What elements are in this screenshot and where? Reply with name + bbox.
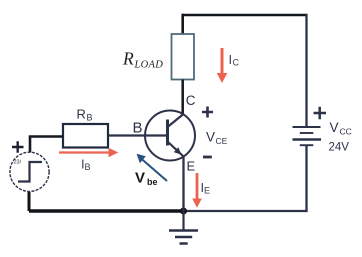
transistor Q1 collector diagonal (168, 114, 184, 127)
svg-text:24V: 24V (329, 142, 350, 154)
transistor Q1 base bar (166, 120, 169, 146)
wire base (R_B to transistor) (108, 134, 167, 136)
label V_be (135, 170, 158, 188)
current arrow I_B (59, 148, 118, 158)
svg-text:B: B (87, 113, 93, 123)
source V1 dashed circle (10, 152, 49, 191)
svg-text:C: C (186, 93, 196, 108)
label C (186, 93, 196, 108)
svg-text:V: V (330, 120, 339, 135)
label R_B (77, 107, 93, 123)
source V1 tiny label (14, 160, 22, 166)
svg-text:R: R (122, 49, 134, 69)
svg-text:V: V (135, 170, 145, 187)
current arrow I_C (217, 48, 228, 83)
source V1 step waveform (18, 162, 42, 182)
svg-text:E: E (204, 186, 210, 196)
svg-text:R: R (77, 107, 86, 122)
wire collector stub (resistor bottom to transistor) (181, 80, 184, 115)
svg-text:E: E (187, 159, 196, 174)
wire bottom rail right segment (184, 210, 308, 212)
transistor Q1 emitter diagonal with arrow (168, 142, 184, 157)
wire source bottom stub (28, 192, 31, 211)
label I_E (201, 180, 211, 196)
svg-text:B: B (133, 120, 143, 137)
svg-text:LOAD: LOAD (134, 60, 164, 71)
svg-text:be: be (147, 177, 158, 187)
label I_C (229, 52, 240, 68)
wire battery bottom to bottom rail (305, 145, 307, 212)
resistor R_B (63, 124, 108, 148)
resistor R_LOAD (172, 34, 195, 80)
battery V_CC plates (293, 127, 322, 145)
svg-text:23/: 23/ (14, 160, 22, 166)
label I_B (81, 157, 91, 173)
voltage arrow V_be (137, 154, 168, 181)
V_CE minus sign (203, 156, 212, 159)
V_CE plus sign (202, 107, 213, 118)
battery V_CC plus sign (314, 107, 327, 120)
label E (187, 159, 196, 174)
node junction dot (180, 208, 187, 215)
source plus sign (12, 141, 24, 153)
ground (169, 211, 198, 244)
wire R_LOAD top stub (181, 14, 184, 35)
wire source top to R_B (30, 137, 63, 153)
label R_LOAD value (122, 49, 163, 71)
wire top rail (183, 14, 307, 17)
label B (133, 120, 143, 137)
svg-text:C: C (233, 58, 240, 68)
current arrow I_E (192, 173, 202, 208)
label V_CE (206, 130, 228, 147)
transistor Q1 circle (145, 111, 195, 161)
wire right rail (top to battery) (305, 14, 307, 127)
label V_CC (329, 120, 352, 154)
wire bottom rail left segment (thick) (29, 209, 184, 212)
wire emitter vertical (182, 157, 184, 212)
svg-text:CE: CE (216, 136, 228, 146)
svg-text:V: V (206, 130, 215, 145)
svg-text:B: B (85, 162, 91, 172)
svg-text:CC: CC (340, 127, 352, 137)
